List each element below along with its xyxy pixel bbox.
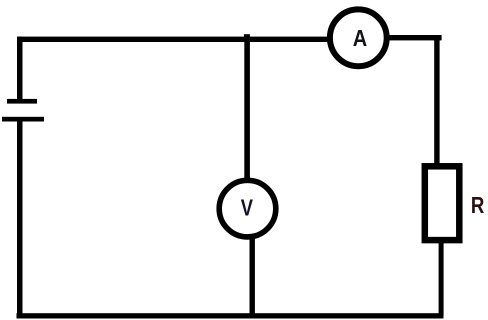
svg-text:V: V (241, 196, 253, 222)
svg-text:A: A (353, 26, 367, 51)
svg-text:R: R (471, 193, 484, 218)
